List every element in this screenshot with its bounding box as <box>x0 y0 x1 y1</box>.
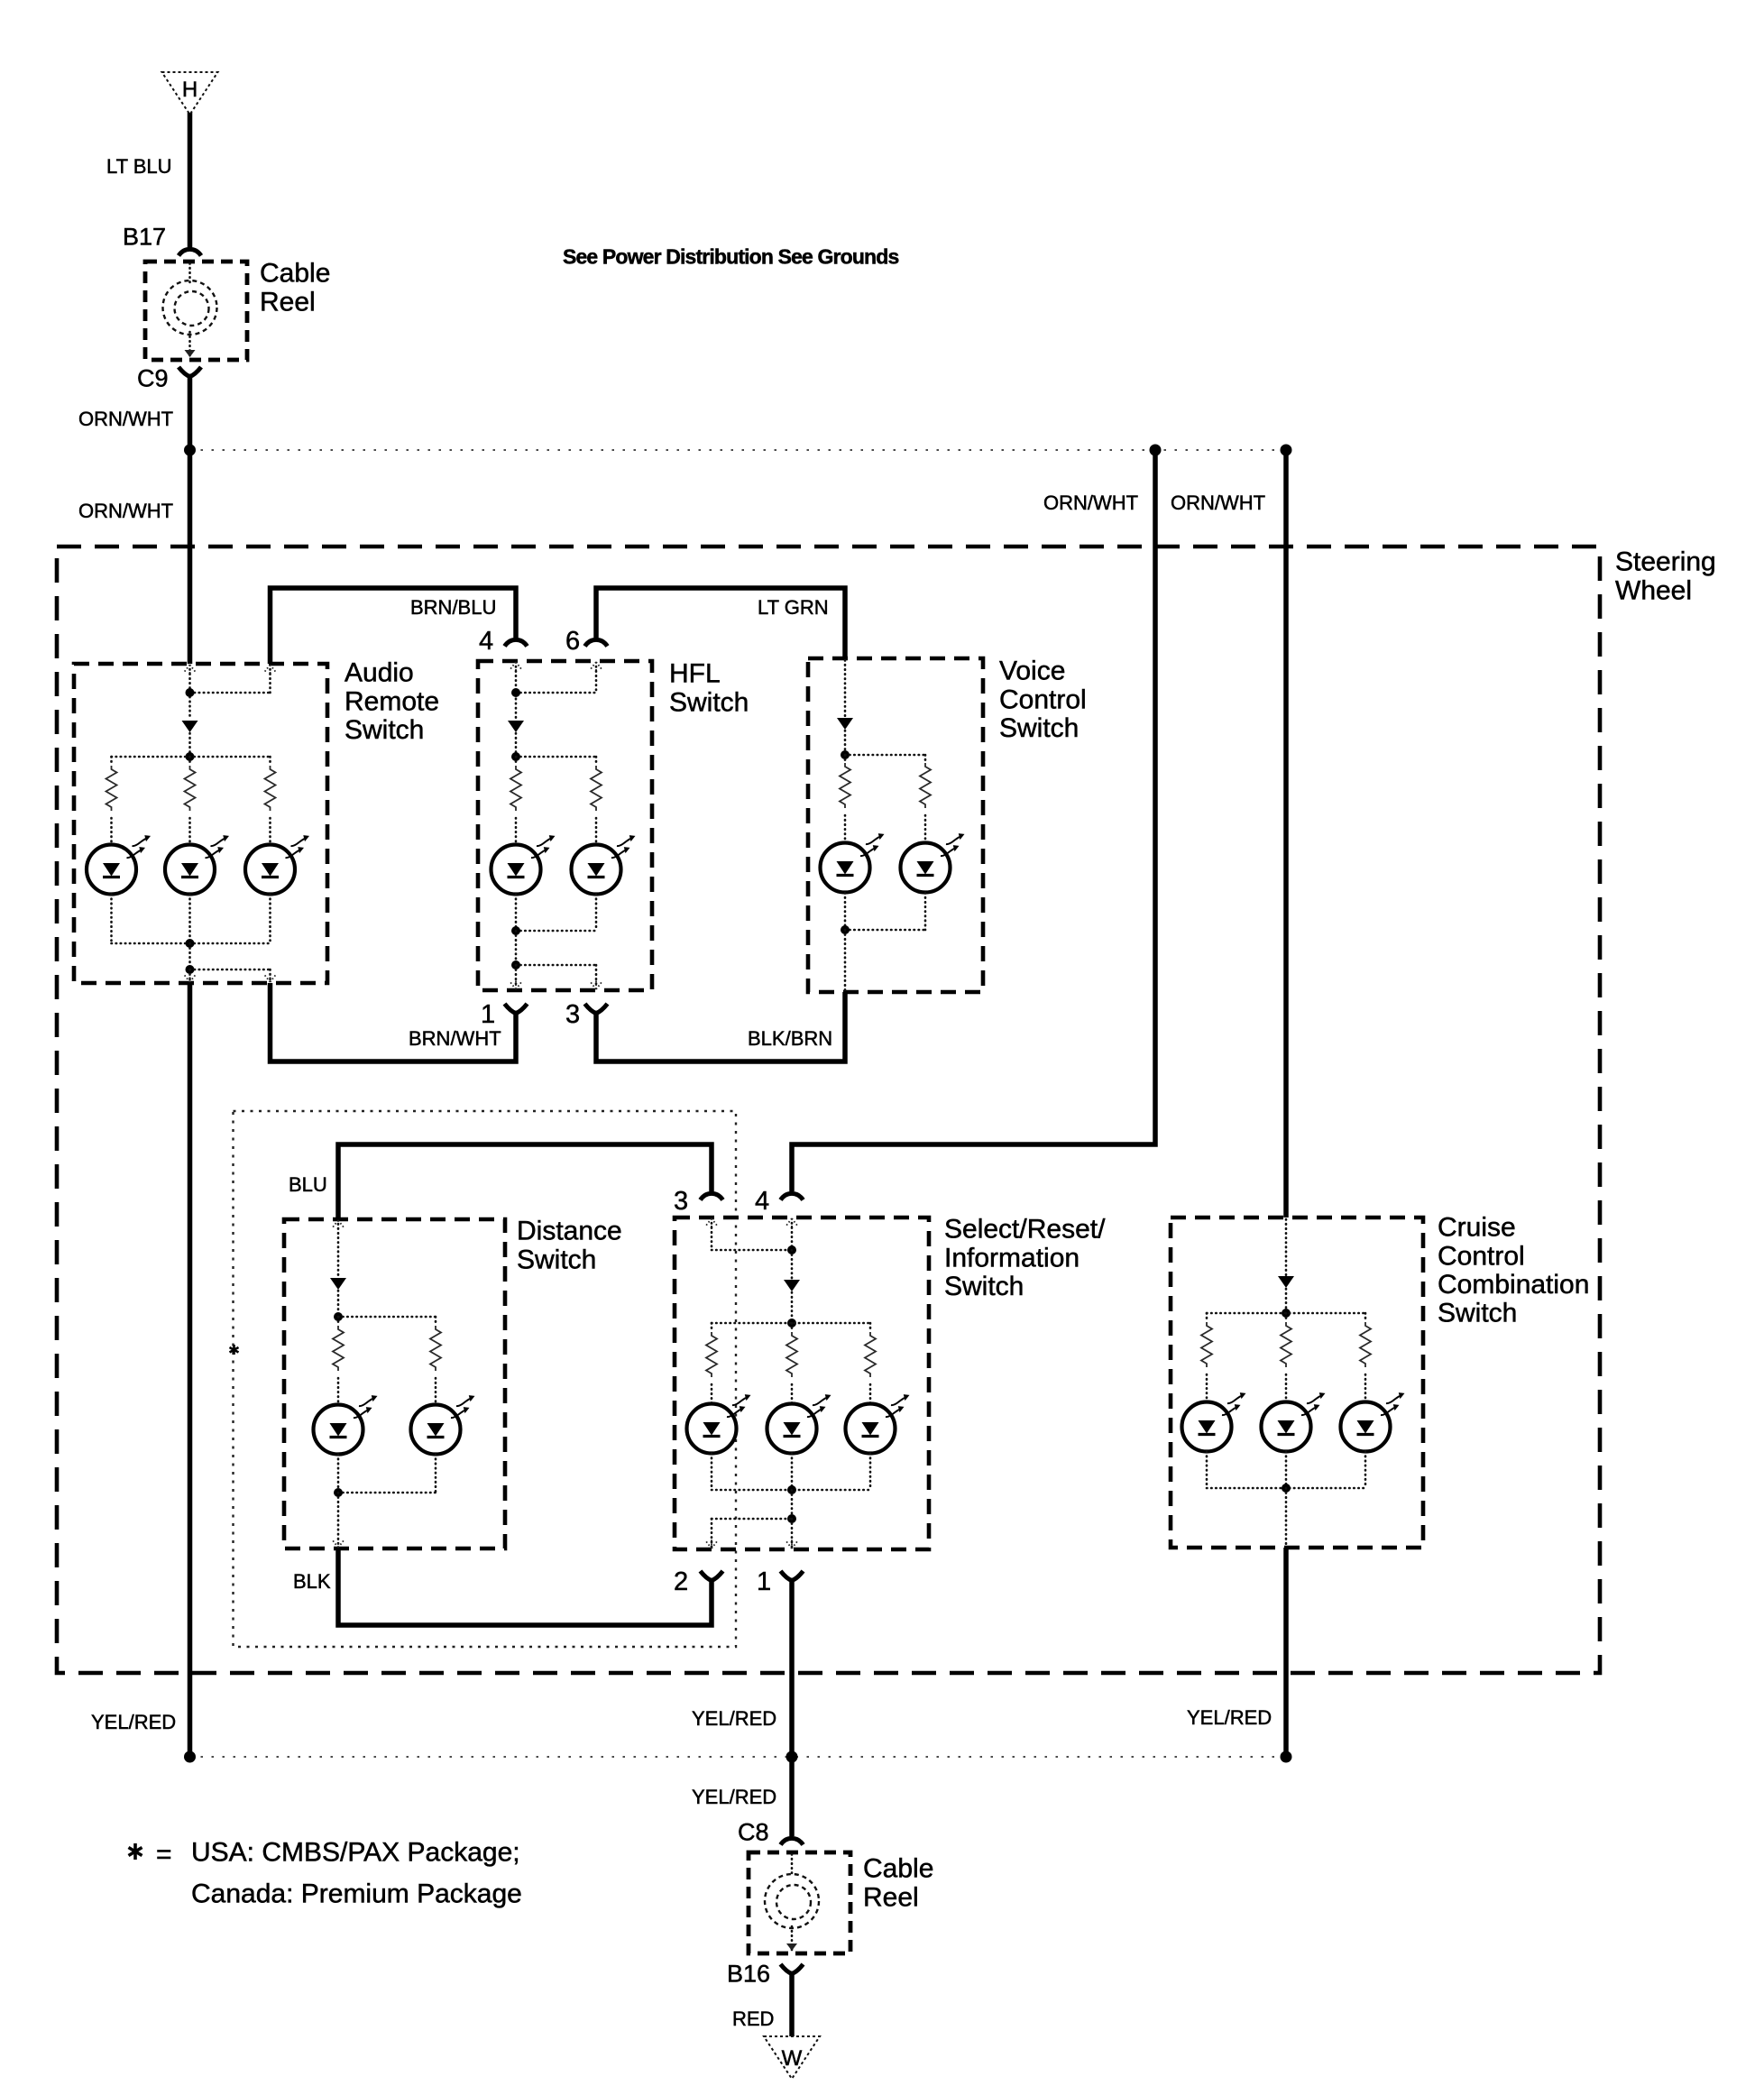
svg-text:Switch: Switch <box>1438 1299 1517 1328</box>
svg-text:HFL: HFL <box>669 659 721 689</box>
svg-text:BLK: BLK <box>293 1570 331 1593</box>
svg-text:Switch: Switch <box>944 1272 1024 1301</box>
svg-text:3: 3 <box>674 1187 688 1216</box>
svg-text:W: W <box>782 2046 803 2071</box>
svg-text:YEL/RED: YEL/RED <box>692 1707 776 1730</box>
svg-text:C9: C9 <box>137 365 169 392</box>
svg-text:Control: Control <box>999 685 1087 714</box>
svg-text:ORN/WHT: ORN/WHT <box>1171 492 1265 514</box>
svg-text:6: 6 <box>565 627 580 656</box>
svg-text:BRN/BLU: BRN/BLU <box>410 596 496 619</box>
svg-text:Remote: Remote <box>345 686 439 716</box>
svg-text:Switch: Switch <box>999 713 1079 743</box>
svg-text:Control: Control <box>1438 1241 1525 1271</box>
svg-text:Switch: Switch <box>517 1245 596 1274</box>
svg-text:YEL/RED: YEL/RED <box>91 1711 176 1733</box>
svg-text:=: = <box>156 1840 172 1870</box>
svg-text:ORN/WHT: ORN/WHT <box>78 500 173 522</box>
svg-text:Combination: Combination <box>1438 1270 1589 1300</box>
svg-text:Cruise: Cruise <box>1438 1213 1516 1243</box>
svg-text:LT BLU: LT BLU <box>106 155 172 178</box>
svg-text:Switch: Switch <box>669 687 749 717</box>
svg-text:B17: B17 <box>123 224 166 251</box>
svg-text:Reel: Reel <box>260 287 316 317</box>
svg-text:ORN/WHT: ORN/WHT <box>1043 492 1138 514</box>
svg-text:Audio: Audio <box>345 658 414 688</box>
svg-text:2: 2 <box>674 1567 688 1596</box>
svg-text:H: H <box>182 78 198 102</box>
svg-text:BRN/WHT: BRN/WHT <box>409 1027 501 1050</box>
svg-text:Reel: Reel <box>863 1882 919 1912</box>
svg-text:RED: RED <box>732 2008 774 2030</box>
svg-text:LT GRN: LT GRN <box>758 596 829 619</box>
svg-text:Steering: Steering <box>1615 547 1716 577</box>
svg-text:Cable: Cable <box>863 1854 933 1884</box>
svg-text:Voice: Voice <box>999 657 1065 686</box>
svg-text:Wheel: Wheel <box>1615 575 1692 605</box>
svg-text:USA: CMBS/PAX Package;: USA: CMBS/PAX Package; <box>191 1838 520 1868</box>
svg-text:YEL/RED: YEL/RED <box>692 1786 776 1808</box>
svg-text:BLU: BLU <box>289 1173 327 1196</box>
svg-text:3: 3 <box>565 1000 580 1029</box>
svg-text:4: 4 <box>755 1187 769 1216</box>
svg-text:1: 1 <box>481 1000 495 1029</box>
svg-text:Cable: Cable <box>260 259 330 289</box>
svg-text:B16: B16 <box>727 1961 770 1988</box>
svg-text:Switch: Switch <box>345 715 424 745</box>
svg-text:C8: C8 <box>738 1819 769 1846</box>
svg-text:Distance: Distance <box>517 1217 622 1246</box>
svg-text:Select/Reset/: Select/Reset/ <box>944 1215 1106 1245</box>
svg-text:1: 1 <box>757 1567 771 1596</box>
svg-text:Information: Information <box>944 1243 1080 1273</box>
svg-text:See Power Distribution See Gr: See Power Distribution See Grounds <box>563 245 898 269</box>
svg-text:4: 4 <box>479 627 493 656</box>
svg-text:ORN/WHT: ORN/WHT <box>78 408 173 430</box>
svg-text:BLK/BRN: BLK/BRN <box>748 1027 832 1050</box>
svg-text:YEL/RED: YEL/RED <box>1187 1706 1272 1729</box>
svg-text:Canada: Premium Package: Canada: Premium Package <box>191 1879 522 1909</box>
